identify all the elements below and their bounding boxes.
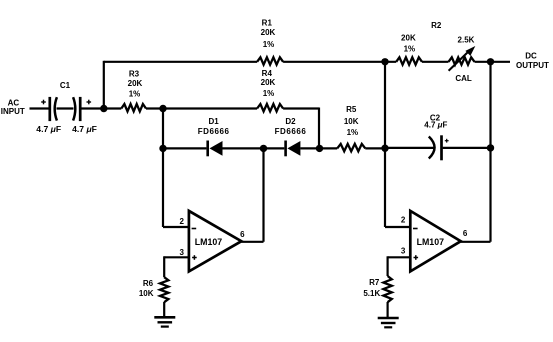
svg-text:R2: R2 [431, 21, 442, 30]
svg-text:4.7 μF: 4.7 μF [72, 124, 97, 134]
svg-text:FD6666: FD6666 [275, 127, 307, 136]
svg-text:5.1K: 5.1K [363, 289, 380, 298]
svg-text:2: 2 [401, 216, 406, 225]
svg-text:1%: 1% [129, 90, 141, 99]
svg-text:20K: 20K [401, 33, 416, 42]
svg-text:1%: 1% [263, 40, 275, 49]
svg-text:D2: D2 [285, 117, 296, 126]
svg-text:AC: AC [8, 98, 20, 107]
svg-text:R5: R5 [346, 105, 357, 114]
svg-text:10K: 10K [344, 117, 359, 126]
svg-text:6: 6 [463, 229, 468, 238]
svg-text:LM107: LM107 [417, 237, 444, 247]
svg-text:6: 6 [240, 230, 245, 239]
svg-text:R4: R4 [262, 69, 273, 78]
svg-text:R1: R1 [262, 18, 273, 27]
svg-text:3: 3 [179, 248, 184, 257]
svg-text:10K: 10K [139, 289, 154, 298]
svg-text:4.7 μF: 4.7 μF [424, 120, 447, 129]
svg-text:1%: 1% [347, 128, 359, 137]
svg-text:R3: R3 [129, 69, 140, 78]
svg-text:LM107: LM107 [195, 237, 222, 247]
svg-text:20K: 20K [128, 79, 143, 88]
svg-text:2.5K: 2.5K [458, 35, 475, 44]
svg-text:C1: C1 [60, 81, 71, 90]
svg-text:2: 2 [179, 217, 184, 226]
svg-text:DC: DC [525, 52, 537, 61]
svg-text:CAL: CAL [455, 74, 472, 83]
svg-text:1%: 1% [263, 89, 275, 98]
svg-text:OUTPUT: OUTPUT [516, 61, 549, 70]
svg-text:INPUT: INPUT [1, 107, 25, 116]
svg-text:4.7 μF: 4.7 μF [36, 124, 61, 134]
svg-text:3: 3 [401, 247, 406, 256]
svg-text:R7: R7 [369, 278, 380, 287]
svg-text:D1: D1 [208, 117, 219, 126]
svg-text:20K: 20K [261, 78, 276, 87]
svg-text:20K: 20K [261, 28, 276, 37]
svg-text:1%: 1% [404, 44, 416, 53]
svg-text:R6: R6 [143, 279, 154, 288]
svg-text:FD6666: FD6666 [198, 127, 230, 136]
